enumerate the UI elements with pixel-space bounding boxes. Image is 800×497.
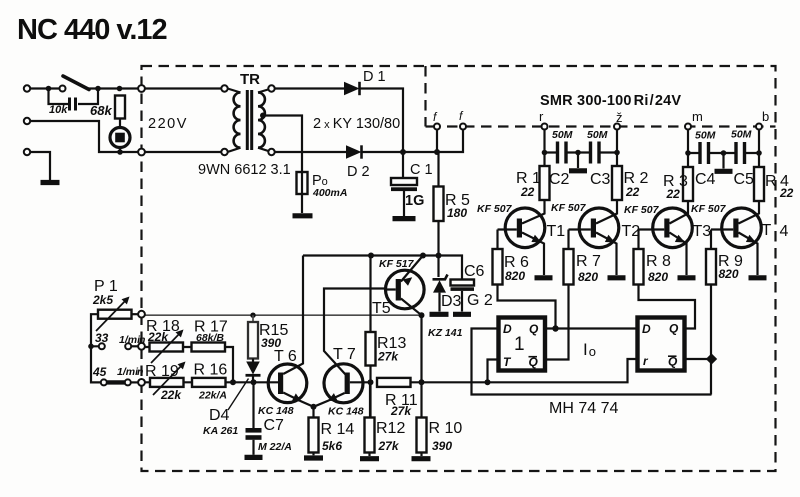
svg-text:220V: 220V xyxy=(148,116,188,132)
wire capacitor loop xyxy=(49,89,99,105)
wire mid ground stub 2 xyxy=(722,153,724,169)
svg-text:D3: D3 xyxy=(441,293,462,310)
wire secondary bottom to D2 xyxy=(275,151,347,153)
svg-text:50M: 50M xyxy=(695,130,716,142)
wire m branch xyxy=(687,130,689,168)
svg-text:TR: TR xyxy=(240,71,260,88)
wire 220V top xyxy=(145,87,221,89)
svg-text:820: 820 xyxy=(578,270,598,284)
svg-text:MH 74 74: MH 74 74 xyxy=(549,400,618,417)
svg-text:G 2: G 2 xyxy=(467,292,493,309)
wire timing bus xyxy=(411,359,638,382)
wire contact to border row1 xyxy=(131,345,138,347)
svg-text:ž: ž xyxy=(616,110,623,125)
svg-text:KF 507: KF 507 xyxy=(691,203,727,215)
diode D2 xyxy=(346,145,362,158)
svg-text:R: R xyxy=(765,173,777,190)
wire z branch xyxy=(616,130,618,167)
wire row2 inside xyxy=(145,381,257,383)
wire FF1 Q to FF2 D xyxy=(546,327,638,329)
svg-text:C6: C6 xyxy=(464,263,485,280)
resistor R6 xyxy=(496,230,498,250)
svg-text:KZ 141: KZ 141 xyxy=(428,327,463,339)
ground fuse xyxy=(293,213,313,218)
svg-text:C7: C7 xyxy=(264,417,285,434)
node rectifier junction xyxy=(400,149,406,155)
svg-text:M 22/A: M 22/A xyxy=(258,441,292,453)
wire R5 to rail xyxy=(437,221,439,277)
wire PE row xyxy=(30,152,50,180)
svg-text:R12: R12 xyxy=(376,420,405,437)
node Q1 junction xyxy=(552,325,558,331)
wire T7 collector to T5 base xyxy=(324,289,386,375)
border terminal top row xyxy=(138,85,145,92)
svg-text:D 1: D 1 xyxy=(363,69,386,85)
svg-text:45: 45 xyxy=(92,365,107,379)
svg-text:KC 148: KC 148 xyxy=(328,406,364,418)
node C xyxy=(117,86,123,92)
svg-text:Io: Io xyxy=(583,340,596,359)
resistor R5 xyxy=(437,152,439,187)
svg-text:T5: T5 xyxy=(372,300,391,317)
svg-text:T1: T1 xyxy=(547,223,566,240)
switch contact 33 right xyxy=(125,343,131,349)
svg-text:5k6: 5k6 xyxy=(322,439,342,453)
svg-text:KF 507: KF 507 xyxy=(624,204,660,216)
ground C4C5 xyxy=(715,169,733,174)
resistor R13 xyxy=(366,332,376,366)
wire D1 to node xyxy=(360,89,404,152)
svg-text:22: 22 xyxy=(625,185,640,199)
resistor 68k xyxy=(115,96,125,119)
resistor R14 xyxy=(312,407,314,418)
node z xyxy=(614,124,620,130)
svg-text:KC 148: KC 148 xyxy=(258,405,294,417)
wire P1 right lead xyxy=(132,313,139,315)
svg-text:C5: C5 xyxy=(734,171,755,188)
wire FF1 T xyxy=(488,360,498,383)
svg-text:f: f xyxy=(433,110,438,124)
wire T5 emitter to R10 node xyxy=(420,315,422,382)
switch S1 contact xyxy=(60,86,66,92)
dashed node line r-z-m-b xyxy=(430,125,776,127)
resistor R10 xyxy=(420,382,422,417)
wire fuse to ground xyxy=(301,194,303,213)
svg-text:1G: 1G xyxy=(405,193,424,209)
transformer TR primary terminal bottom xyxy=(221,149,227,155)
border terminal row2 xyxy=(138,379,145,386)
svg-text:820: 820 xyxy=(505,269,525,283)
svg-text:R 19: R 19 xyxy=(145,363,179,380)
svg-text:820: 820 xyxy=(719,267,739,281)
svg-text:33: 33 xyxy=(95,331,109,345)
wire R7 to FF1 Qbar xyxy=(546,285,569,360)
flip-flop FF1 xyxy=(499,318,546,371)
zener diode D3 KZ141 xyxy=(433,275,448,280)
transistor T1 KF507 xyxy=(498,200,545,275)
ground R14 xyxy=(304,455,323,460)
node rail R5 xyxy=(436,253,442,259)
svg-text:T 7: T 7 xyxy=(333,346,356,363)
ground C7 xyxy=(245,455,263,460)
node C4-C5 mid xyxy=(721,150,727,156)
svg-text:R 8: R 8 xyxy=(646,253,671,270)
svg-text:D 2: D 2 xyxy=(347,164,370,180)
resistor R19 xyxy=(150,378,184,387)
capacitor C2 xyxy=(558,142,567,164)
svg-text:180: 180 xyxy=(447,206,467,220)
svg-text:C3: C3 xyxy=(590,171,611,188)
node D4 C7 xyxy=(251,379,257,385)
wire secondary top to D1 xyxy=(275,87,345,89)
resistor R18 xyxy=(150,343,184,352)
diode D1 xyxy=(344,82,360,95)
wire P1 feed line xyxy=(145,314,422,316)
svg-text:Q: Q xyxy=(669,322,679,336)
svg-text:22k/A: 22k/A xyxy=(198,390,227,402)
svg-text:50M: 50M xyxy=(731,129,752,141)
wire top input row xyxy=(30,87,138,89)
ground D3 xyxy=(430,312,449,317)
transformer TR primary terminal top xyxy=(221,85,227,91)
svg-text:r: r xyxy=(539,109,544,124)
wire P1 left branch xyxy=(91,314,101,382)
lamp indicator xyxy=(110,128,130,148)
node R15 top xyxy=(250,313,255,318)
svg-text:68k: 68k xyxy=(90,103,112,118)
transformer TR secondary terminal bottom xyxy=(268,149,274,155)
fuse Po xyxy=(297,172,308,194)
node Qbar2 diamond xyxy=(706,353,717,364)
node center tap xyxy=(260,113,266,119)
svg-text:C4: C4 xyxy=(695,171,716,188)
node T7 base junction xyxy=(368,379,374,385)
terminal input N xyxy=(24,118,30,124)
switch contact 45 left xyxy=(101,379,107,385)
svg-text:KF 507: KF 507 xyxy=(477,203,513,215)
border terminal lamp row xyxy=(138,149,145,156)
wire R9 to FF2 Qbar xyxy=(686,285,712,395)
svg-text:27k: 27k xyxy=(390,404,412,418)
border terminal P1 xyxy=(138,311,145,318)
transformer TR secondary winding xyxy=(258,89,272,93)
wire C4 link xyxy=(688,152,759,154)
ground PE xyxy=(41,180,60,185)
svg-text:27k: 27k xyxy=(378,439,400,453)
svg-text:820: 820 xyxy=(648,270,668,284)
wire f left riser xyxy=(436,130,438,153)
node A xyxy=(46,86,52,92)
wire R6 to FF1 Q xyxy=(498,285,556,329)
transformer TR secondary terminal top xyxy=(268,85,274,91)
inner SMR unit dashed boundary xyxy=(426,66,431,127)
node R5 tap xyxy=(434,149,440,155)
node z cap junction xyxy=(614,150,620,156)
resistor R7 xyxy=(567,230,569,250)
svg-text:68k/B: 68k/B xyxy=(196,332,224,344)
svg-text:KF 507: KF 507 xyxy=(551,202,587,214)
terminal input L xyxy=(24,85,30,91)
node lamp bottom xyxy=(117,149,123,155)
resistor R1 xyxy=(540,166,550,200)
svg-text:22k: 22k xyxy=(160,388,182,402)
svg-text:b: b xyxy=(762,109,769,124)
node B xyxy=(95,86,101,92)
svg-text:22: 22 xyxy=(779,186,794,200)
outer dashed enclosure border xyxy=(142,66,776,471)
wire 220V bottom xyxy=(145,151,221,153)
svg-text:50M: 50M xyxy=(587,129,608,141)
svg-text:KF 517: KF 517 xyxy=(379,258,415,270)
wire center tap xyxy=(263,116,303,173)
potentiometer P1 xyxy=(98,310,132,319)
svg-text:T 6: T 6 xyxy=(274,348,297,365)
flip-flop FF2 xyxy=(638,318,685,371)
svg-text:NC 440 v.12: NC 440 v.12 xyxy=(17,14,167,46)
wire N row xyxy=(30,121,138,152)
resistor R17 xyxy=(192,343,226,352)
svg-text:1: 1 xyxy=(514,334,525,355)
svg-text:1/min: 1/min xyxy=(119,334,145,346)
transistor T2 KF507 xyxy=(569,200,619,275)
resistor R11 xyxy=(377,378,411,387)
svg-text:4: 4 xyxy=(780,223,789,240)
transistor T4 KF507 xyxy=(711,201,761,275)
node b xyxy=(756,124,762,130)
resistor R16 xyxy=(192,378,226,387)
node m cap junction xyxy=(685,150,691,156)
switch contact 45 right xyxy=(125,379,131,385)
ground T1 emitter xyxy=(535,275,553,280)
transistor T5 KF517 xyxy=(386,256,425,316)
resistor R4 xyxy=(754,167,764,201)
node f left xyxy=(434,124,440,130)
transistor T6 KC148 xyxy=(257,256,314,407)
border terminal row1 xyxy=(138,343,145,350)
wire R8 to FF2 Q xyxy=(639,285,696,329)
node FF1 T tap xyxy=(485,379,491,385)
svg-text:1/min: 1/min xyxy=(117,366,143,378)
resistor R2 xyxy=(612,166,622,200)
capacitor C4 xyxy=(700,142,709,164)
node f right xyxy=(460,124,466,130)
ground R12 xyxy=(360,456,379,461)
svg-text:2 x KY 130/80: 2 x KY 130/80 xyxy=(313,116,400,132)
capacitor C5 xyxy=(736,142,745,164)
svg-text:D: D xyxy=(642,322,651,336)
ground C6 xyxy=(453,312,471,317)
svg-text:C 1: C 1 xyxy=(410,162,433,178)
svg-text:Q: Q xyxy=(529,322,539,336)
svg-text:390: 390 xyxy=(432,439,452,453)
node P1 left xyxy=(88,344,94,350)
svg-text:f: f xyxy=(459,109,464,123)
svg-text:T: T xyxy=(762,222,772,239)
node R10 tap xyxy=(419,379,425,385)
switch contact 33 left xyxy=(99,343,105,349)
wire r branch xyxy=(543,130,545,167)
leader D4 xyxy=(228,379,249,411)
node T5 emitter line xyxy=(419,312,425,318)
transformer TR primary winding xyxy=(228,89,241,93)
ground T4 emitter xyxy=(749,275,767,280)
node rail T5 xyxy=(420,253,426,259)
wire FF1 D loop xyxy=(472,329,712,395)
ground T2 emitter xyxy=(608,275,626,280)
svg-text:R 14: R 14 xyxy=(321,421,355,438)
ground C2C3 xyxy=(569,168,587,173)
wire R13 riser xyxy=(369,256,371,333)
wire mid ground stub xyxy=(577,153,579,169)
svg-text:22k: 22k xyxy=(147,330,169,344)
transistor T3 KF507 xyxy=(639,201,693,275)
transistor T7 KC148 mirrored xyxy=(314,364,371,407)
node b cap junction xyxy=(756,150,762,156)
capacitor C6 electrolytic xyxy=(451,280,475,286)
node C2-C3 mid xyxy=(575,150,581,156)
svg-text:22: 22 xyxy=(666,187,681,201)
node r xyxy=(542,124,548,130)
node m xyxy=(685,124,691,130)
node emitters junction xyxy=(311,404,317,410)
switch S1 arm xyxy=(63,76,89,90)
resistor R12 xyxy=(369,382,371,417)
resistor R15 xyxy=(252,315,254,322)
svg-text:D: D xyxy=(503,322,512,336)
svg-text:C2: C2 xyxy=(549,171,570,188)
svg-text:10k: 10k xyxy=(49,104,68,116)
wire row1 inside xyxy=(145,347,233,382)
wire C2 link xyxy=(545,151,618,153)
capacitor C1 electrolytic xyxy=(391,178,417,185)
ground T3 emitter xyxy=(678,275,696,280)
svg-text:SMR 300-100Ri/24V: SMR 300-100Ri/24V xyxy=(540,93,681,109)
svg-text:R 16: R 16 xyxy=(194,362,228,379)
terminal input PE xyxy=(24,149,30,155)
node rail R13 xyxy=(368,253,374,259)
resistor R3 xyxy=(683,167,693,201)
svg-text:R 10: R 10 xyxy=(429,420,463,437)
svg-text:R 7: R 7 xyxy=(576,253,601,270)
transformer TR core xyxy=(247,90,251,150)
svg-text:22: 22 xyxy=(520,185,535,199)
wire contact to border row2 xyxy=(131,381,138,383)
node r cap junction xyxy=(542,150,548,156)
ground C1 xyxy=(393,216,416,221)
resistor R8 xyxy=(637,230,639,250)
capacitor C7 xyxy=(252,382,254,428)
switch bridge bar xyxy=(107,380,126,384)
svg-text:KA 261: KA 261 xyxy=(203,425,238,437)
wire D2 output rail xyxy=(362,130,464,153)
svg-text:27k: 27k xyxy=(377,350,399,364)
wire lamp leads xyxy=(119,119,121,153)
svg-text:2k5: 2k5 xyxy=(92,293,113,307)
node R17 drop xyxy=(230,379,236,385)
wire regulated rail xyxy=(303,256,462,280)
capacitor C3 xyxy=(591,142,600,164)
svg-text:9WN 6612 3.1: 9WN 6612 3.1 xyxy=(198,162,291,178)
svg-text:D4: D4 xyxy=(209,407,230,424)
wire b branch xyxy=(758,130,760,168)
resistor R9 xyxy=(710,230,712,250)
svg-text:T3: T3 xyxy=(693,223,712,240)
ground R10 xyxy=(412,456,431,461)
svg-text:50M: 50M xyxy=(552,129,573,141)
svg-text:m: m xyxy=(692,109,703,124)
svg-text:400mA: 400mA xyxy=(312,187,347,199)
diode D4 KA261 xyxy=(252,359,254,363)
capacitor 10k plates xyxy=(70,98,76,111)
wire C1 lead xyxy=(402,152,404,178)
